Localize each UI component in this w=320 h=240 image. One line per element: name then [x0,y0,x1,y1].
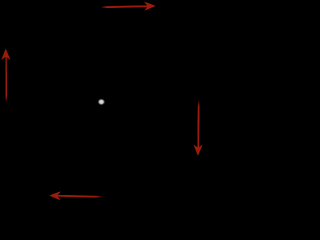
right arrow shaft [197,100,200,148]
bottom arrowhead [49,191,61,200]
center dot [99,99,104,104]
center dot flare [98,101,105,103]
top arrow shaft [100,6,147,7]
left arrow shaft [5,57,8,103]
top arrowhead [144,2,156,11]
right arrowhead [193,144,202,155]
left arrowhead [1,49,10,60]
bottom arrow shaft [57,196,102,197]
